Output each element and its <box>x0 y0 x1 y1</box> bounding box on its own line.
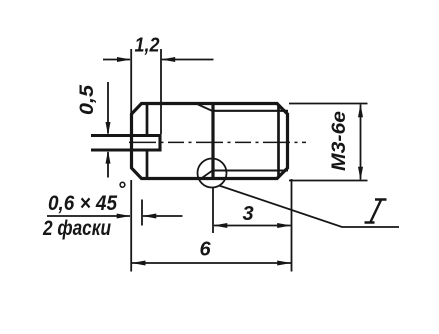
right chamfer base line <box>277 105 280 177</box>
dim 1,2 extension line left <box>130 49 132 135</box>
arrowhead M3-6e down <box>358 167 363 180</box>
arrowhead 3 right <box>277 223 291 228</box>
svg-text:3: 3 <box>242 203 253 225</box>
svg-text:0,5: 0,5 <box>77 85 98 115</box>
left chamfer edge line <box>146 104 149 179</box>
svg-text:6: 6 <box>199 239 211 261</box>
svg-text:М3-6е: М3-6е <box>329 111 350 171</box>
dim M3-6e extension bottom <box>289 180 368 182</box>
dim 0,5 lower arrow line <box>107 152 109 178</box>
arrowhead 1,2 right <box>161 57 175 62</box>
arrowhead M3-6e up <box>358 104 363 117</box>
centerline axis <box>129 141 306 143</box>
slot bottom vertical <box>158 135 161 152</box>
svg-text:2 фаски: 2 фаски <box>42 217 111 240</box>
arrowhead 6 left <box>132 261 146 266</box>
dim M3-6e dimension line <box>360 105 362 180</box>
chamfer second extension line <box>141 200 143 226</box>
slot top line <box>91 134 162 137</box>
arrowhead 0,5 up <box>106 150 111 163</box>
thread runout top <box>198 105 213 112</box>
chamfer note shelf line <box>47 215 130 217</box>
label I strokes <box>365 200 387 223</box>
dim 1,2 dimension line <box>103 59 214 61</box>
dim 6 dimension line <box>132 262 291 264</box>
dim 0,5 upper arrow line <box>107 82 109 134</box>
arrowhead 0,5 down <box>106 122 111 135</box>
slot bottom line <box>91 148 162 151</box>
thread runout bottom <box>203 171 213 178</box>
dim 6 extension left <box>130 180 132 272</box>
dim 6 extension right <box>291 179 293 272</box>
detail circle I <box>198 159 227 188</box>
thread minor line top <box>213 110 289 112</box>
arrowhead chamfer shelf right <box>117 214 131 219</box>
svg-text:0,6 × 45: 0,6 × 45 <box>48 192 117 215</box>
dim 3 dimension line <box>214 225 291 227</box>
dim M3-6e extension top <box>289 103 368 105</box>
arrowhead 1,2 left <box>117 57 131 62</box>
dim 3 extension left <box>212 187 214 233</box>
dim 1,2 extension line right <box>160 49 162 134</box>
arrowhead chamfer tail left <box>142 214 156 219</box>
chamfer right tail line <box>143 215 183 217</box>
arrowhead 3 left <box>213 223 227 228</box>
svg-text:1,2: 1,2 <box>135 35 160 57</box>
body outline of set screw <box>132 104 288 179</box>
arrowhead 6 right <box>277 261 291 266</box>
thread minor line bottom <box>213 169 289 171</box>
svg-text:°: ° <box>118 179 127 201</box>
leader line to detail label <box>219 186 399 228</box>
step line between head and thread <box>211 104 214 179</box>
